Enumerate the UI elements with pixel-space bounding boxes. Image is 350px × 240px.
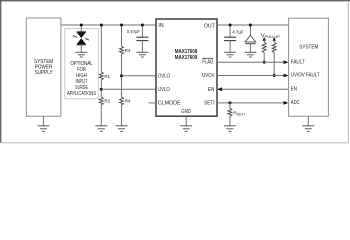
resistor R3: [120, 25, 131, 97]
node: C2 top: [229, 24, 232, 27]
capacitor C1 0.47uF: [127, 25, 149, 52]
svg-text:MAX17609: MAX17609: [175, 55, 197, 61]
svg-text:R1: R1: [104, 74, 110, 80]
node: TVS to input rail: [80, 24, 83, 27]
ground (SYSTEM): [302, 116, 314, 131]
svg-text:EN: EN: [291, 86, 297, 92]
svg-text:SETI: SETI: [204, 101, 214, 107]
ground (supply): [37, 116, 49, 131]
node: SETI to RSETI: [228, 101, 231, 104]
svg-text:FLAG: FLAG: [202, 59, 213, 65]
arrow into SYSTEM (ADC): [284, 101, 289, 105]
svg-text:IN: IN: [158, 23, 163, 29]
svg-text:OVLO: OVLO: [158, 73, 170, 79]
svg-text:4.7µF: 4.7µF: [232, 29, 243, 35]
diode D1: [245, 25, 256, 52]
svg-text:ADC: ADC: [291, 100, 300, 106]
node: C1 top: [141, 24, 144, 27]
wire: UVOV to UV/OV FAULT: [217, 75, 284, 77]
capacitor C2 4.7uF: [224, 25, 244, 52]
ground (TVS): [75, 52, 87, 57]
node: R1 top: [100, 24, 103, 27]
arrow into IC (EN): [217, 87, 222, 91]
border frame: [0, 0, 350, 143]
resistor RSETI: [228, 103, 245, 126]
TVS diode (bidirectional, optional): [73, 25, 89, 52]
node: D1 top: [249, 24, 252, 27]
arrow into SYSTEM (UV/OV FAULT): [284, 74, 289, 78]
svg-text:EN: EN: [208, 87, 215, 93]
svg-text:OPTIONAL: OPTIONAL: [70, 61, 92, 67]
node: R1/R2 junction to UVLO: [100, 88, 103, 91]
wire: OVLO to R3/R4 tap: [122, 75, 157, 77]
wire: supply to IN: [61, 24, 156, 26]
ground (GND pin): [180, 116, 192, 131]
box: SYSTEM POWER SUPPLY: [26, 18, 61, 116]
svg-text:R3: R3: [125, 48, 131, 54]
svg-text:R4: R4: [125, 99, 131, 105]
svg-text:0.47µF: 0.47µF: [127, 29, 140, 35]
wire: CLMODE stub: [149, 102, 157, 104]
svg-text:FAULT: FAULT: [291, 59, 305, 65]
node: RP1 to FLAG line: [263, 61, 266, 64]
ground (R2): [95, 126, 107, 132]
wire: FLAG to FAULT: [217, 61, 284, 63]
wire: OUT rail: [217, 24, 289, 26]
resistor RP1 (pull-up, FLAG): [262, 37, 266, 62]
svg-text:APPLICATIONS: APPLICATIONS: [67, 91, 96, 97]
svg-text:UVOV: UVOV: [202, 73, 215, 79]
svg-text:SYSTEM: SYSTEM: [299, 44, 318, 50]
svg-text:OUT: OUT: [204, 24, 216, 30]
svg-text:R2: R2: [104, 99, 110, 105]
svg-text:UV/OV FAULT: UV/OV FAULT: [291, 72, 320, 78]
svg-text:SURGE: SURGE: [75, 85, 88, 91]
ground (R4): [116, 126, 128, 132]
box: SYSTEM: [289, 18, 329, 116]
ground (C2): [224, 52, 236, 57]
node: RP2 to UVOV line: [273, 74, 276, 77]
resistor R4: [120, 97, 131, 126]
wire: SETI to ADC: [217, 102, 284, 104]
svg-text:HIGH: HIGH: [76, 73, 87, 79]
node: R3/R4 junction to OVLO: [120, 74, 123, 77]
wire: EN from SYSTEM: [222, 88, 289, 90]
resistor R2: [99, 97, 110, 126]
IC U1 MAX17608/MAX17609: [156, 19, 217, 116]
ground (C1): [136, 52, 148, 57]
optional surge box: [65, 29, 99, 99]
wire: UVLO to R1/R2 tap: [101, 88, 156, 90]
resistor RP2 (pull-up, UVOV): [272, 37, 276, 75]
svg-text:GND: GND: [181, 109, 191, 115]
ground (RSETI): [224, 126, 236, 132]
svg-text:UVLO: UVLO: [158, 87, 170, 93]
svg-text:SUPPLY: SUPPLY: [35, 70, 53, 76]
ground (D1): [244, 52, 256, 57]
node: R3 top: [120, 24, 123, 27]
arrow into SYSTEM (FAULT): [284, 60, 289, 64]
svg-text:CLMODE: CLMODE: [158, 101, 181, 107]
resistor R1: [99, 25, 110, 97]
